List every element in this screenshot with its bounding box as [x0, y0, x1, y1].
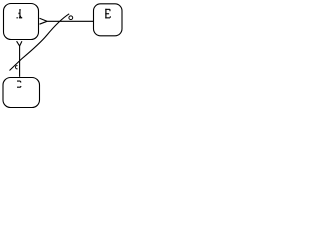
small c-shaped marker near bottom end of diagonal edge — [16, 66, 18, 69]
diagonal edge (curved) from upper-right near small circle down to lower-left near node C — [10, 14, 70, 71]
small circle marker near top end of diagonal edge — [69, 16, 73, 20]
label C — [17, 81, 21, 87]
node B (rounded rectangle, top-right) — [94, 4, 123, 36]
edge A to B: horizontal wire to node B — [47, 20, 94, 22]
edge A to C: vertical wire down to node C — [19, 46, 21, 77]
node A (rounded rectangle, top-left) — [4, 4, 39, 40]
edge A to B: open arrowhead at A's right edge, tip pointing right — [40, 18, 48, 24]
label B — [105, 9, 111, 19]
edge A to C: open arrowhead at A's bottom edge, tip pointing down — [17, 41, 22, 46]
node C (rounded rectangle, bottom-left) — [3, 78, 40, 108]
label A — [17, 9, 23, 18]
